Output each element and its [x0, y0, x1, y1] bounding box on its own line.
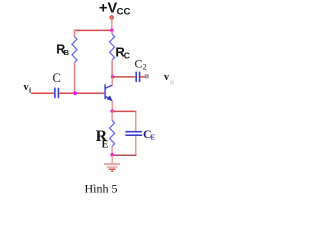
label RE — [96, 128, 109, 150]
wire top of RB branch — [74, 30, 76, 37]
svg-text:E: E — [150, 133, 155, 142]
svg-text:+V: +V — [99, 1, 117, 17]
wire RE bottom to J5 — [111, 146, 113, 155]
resistor RB — [72, 37, 77, 63]
VCC terminal — [110, 16, 113, 19]
wire emitter to J4 — [111, 101, 113, 111]
resistor RE — [110, 120, 115, 146]
svg-text:B: B — [64, 48, 70, 57]
label CE — [143, 127, 155, 141]
svg-text:C: C — [135, 56, 143, 70]
label C2 — [135, 56, 147, 71]
svg-text:o: o — [170, 77, 174, 86]
label RC — [115, 44, 130, 60]
svg-text:C: C — [53, 71, 61, 85]
svg-text:2: 2 — [143, 63, 147, 72]
wire vi to capacitor C — [31, 92, 54, 94]
svg-text:v: v — [24, 82, 29, 93]
wire capacitor C to base — [59, 92, 104, 94]
label RB — [56, 43, 69, 58]
output terminal square — [145, 75, 148, 78]
capacitor C — [55, 88, 59, 98]
node J5 ground junction — [110, 153, 114, 157]
label vi — [24, 82, 32, 94]
wire CE bottom to bottom rail — [135, 136, 137, 155]
label vo — [164, 72, 174, 86]
wire collector node down to transistor — [111, 77, 113, 85]
svg-text:i: i — [29, 86, 31, 95]
wire J4 to CE branch — [112, 110, 136, 112]
svg-text:E: E — [102, 139, 109, 150]
wire RB bottom to base node — [74, 63, 76, 94]
svg-text:CC: CC — [117, 6, 131, 17]
transistor Q1 — [105, 84, 112, 101]
wire VCC terminal to top rail — [111, 20, 113, 31]
svg-text:Hình 5: Hình 5 — [85, 182, 118, 196]
ground — [104, 155, 120, 171]
capacitor C2 — [136, 72, 139, 83]
resistor RC top wire — [111, 30, 113, 34]
node J4 emitter junction — [110, 110, 114, 114]
wire CE branch down to capacitor — [135, 111, 137, 131]
node J1 top rail junction — [110, 29, 114, 33]
wire top rail horizontal — [74, 29, 113, 31]
resistor RC — [110, 34, 115, 60]
svg-text:C: C — [124, 50, 130, 60]
capacitor CE — [125, 132, 142, 136]
node J3 collector junction — [111, 75, 115, 79]
node +VCC label — [99, 1, 130, 18]
wire RC bottom to collector node — [111, 60, 113, 77]
wire J4 down to RE — [111, 111, 113, 120]
wire C2 to output terminal — [140, 76, 145, 78]
wire collector node to C2 — [113, 76, 136, 78]
svg-text:v: v — [164, 72, 169, 83]
wire bottom rail — [112, 154, 136, 156]
node J2 base junction — [73, 91, 77, 95]
